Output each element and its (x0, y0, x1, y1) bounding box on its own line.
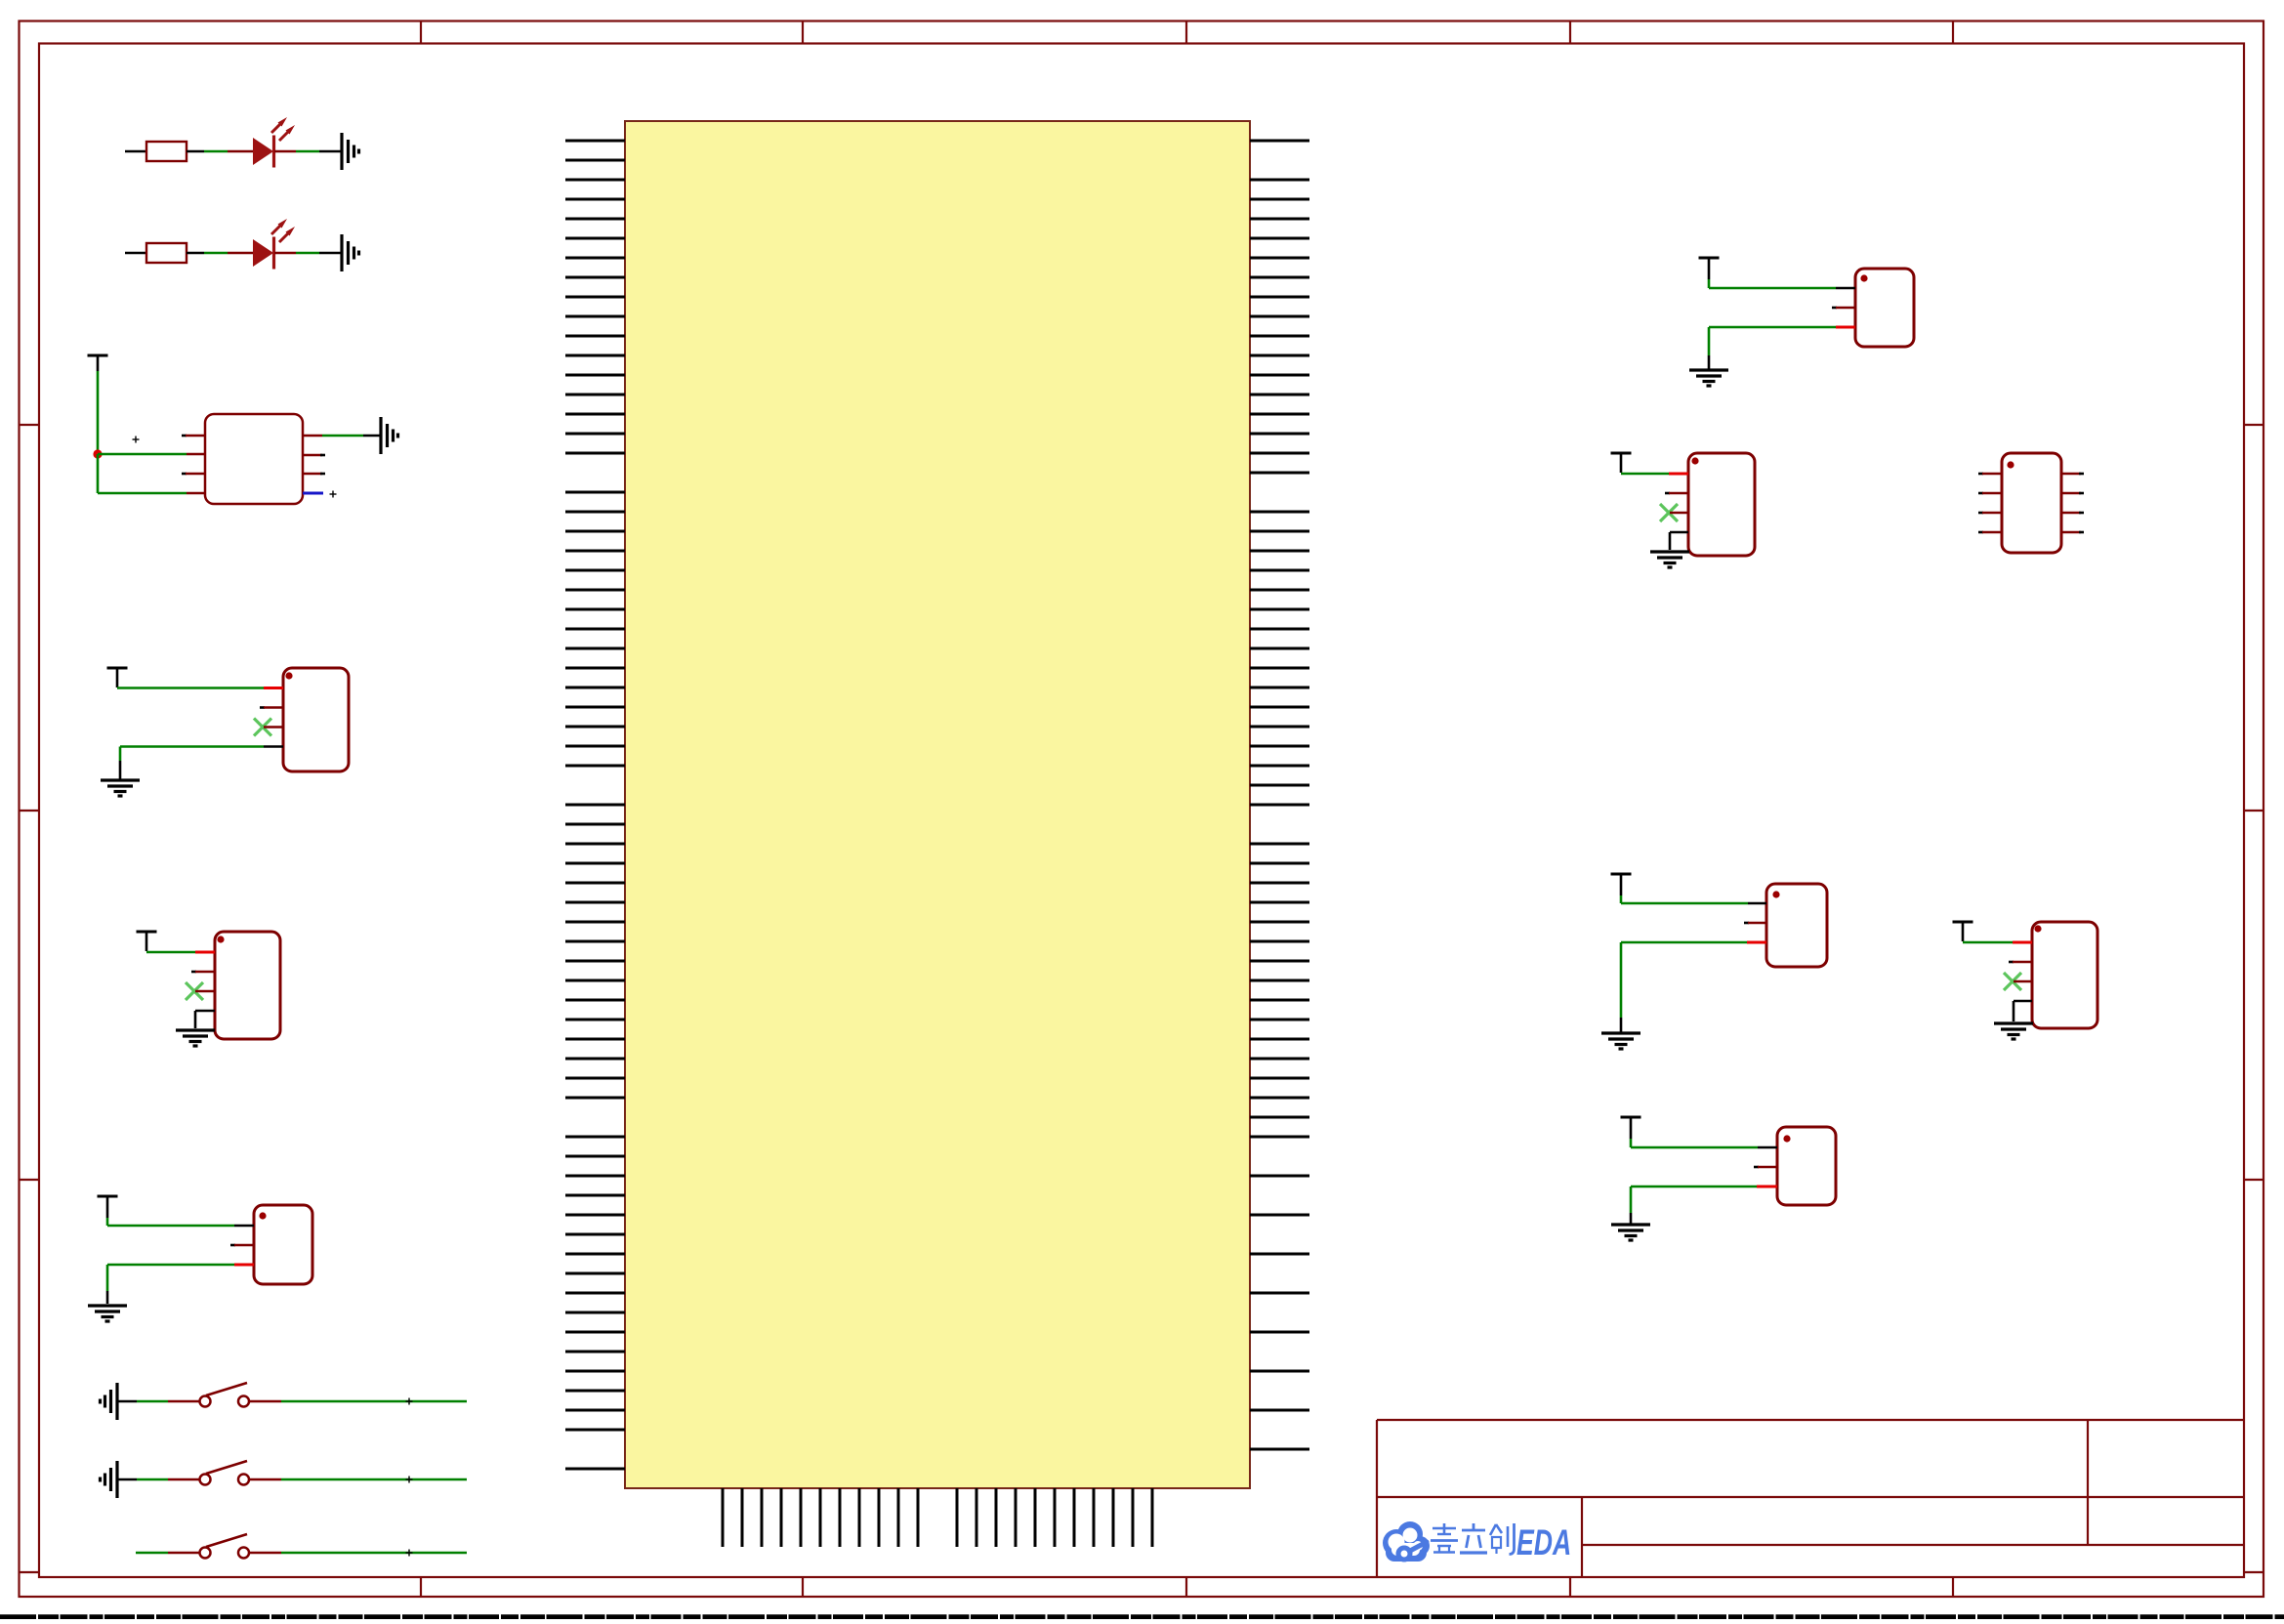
svg-text:EDA: EDA (1516, 1522, 1571, 1562)
